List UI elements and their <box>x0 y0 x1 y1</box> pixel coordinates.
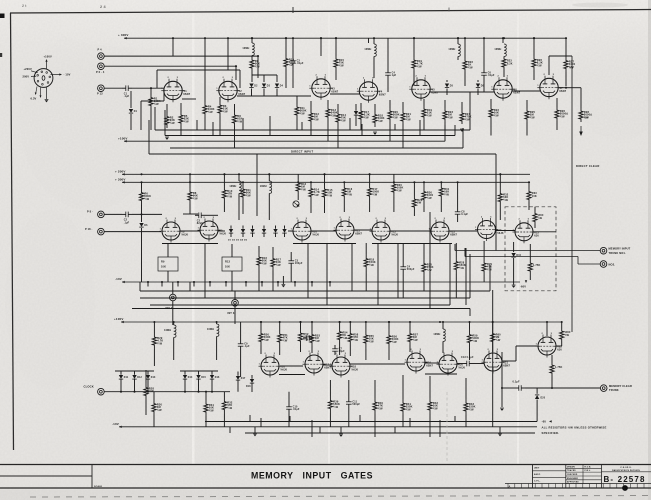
wire <box>263 233 265 237</box>
junction <box>285 37 287 39</box>
wire <box>173 337 175 360</box>
wire <box>534 207 536 211</box>
wire <box>360 103 362 108</box>
wire <box>394 124 396 130</box>
junction <box>133 391 135 393</box>
junction <box>457 181 459 183</box>
wire <box>372 243 452 245</box>
inductor <box>164 325 176 337</box>
diode D11 <box>119 375 129 379</box>
resistor R22 <box>463 58 474 72</box>
resistor R18 <box>364 254 376 271</box>
wire <box>285 69 287 88</box>
wire <box>285 38 287 56</box>
wire <box>148 120 150 154</box>
wire <box>533 70 535 80</box>
junction <box>235 65 237 67</box>
wire <box>469 254 471 298</box>
wire <box>324 201 326 213</box>
net +200V <box>115 170 530 176</box>
diode D12 <box>132 375 142 379</box>
wire <box>499 208 501 220</box>
wire <box>444 125 446 141</box>
border frame left <box>11 13 14 450</box>
wire <box>556 98 558 107</box>
wire <box>551 375 553 388</box>
wire <box>483 275 485 282</box>
wire <box>242 233 244 237</box>
wire <box>268 193 270 220</box>
terminal P13 <box>97 85 104 96</box>
wire <box>440 182 442 185</box>
wire <box>216 322 218 324</box>
junction <box>501 387 503 389</box>
junction <box>388 321 390 323</box>
wire <box>365 243 367 254</box>
junction <box>260 321 262 323</box>
resistor R56 <box>387 329 399 350</box>
wire <box>230 233 232 237</box>
wire <box>329 282 331 287</box>
wire <box>156 70 158 88</box>
wire <box>548 56 550 75</box>
wire <box>292 38 294 57</box>
tube socket pin diagram <box>23 55 71 103</box>
wire <box>561 322 563 329</box>
wire <box>180 126 182 136</box>
wire <box>297 195 299 200</box>
wire <box>536 400 538 422</box>
wire <box>229 427 231 433</box>
resistor R14 <box>336 111 347 125</box>
resistor R2 <box>165 113 175 128</box>
wire <box>354 229 372 231</box>
wire <box>461 102 463 110</box>
diode D4 <box>275 84 284 88</box>
capacitor <box>515 385 525 391</box>
wire <box>180 370 218 372</box>
wire <box>444 122 446 130</box>
resistor R29 <box>482 259 493 275</box>
junction <box>227 37 229 39</box>
junction <box>349 321 351 323</box>
junction <box>369 173 371 175</box>
wire <box>483 79 485 92</box>
drawing number B-22578 <box>604 475 646 484</box>
resistor R32 <box>222 397 233 414</box>
capacitor C7 <box>332 345 345 355</box>
wire <box>349 118 351 130</box>
junction <box>223 173 225 175</box>
wire <box>389 122 391 141</box>
wire <box>402 273 404 298</box>
wire <box>439 420 441 437</box>
wire <box>227 38 229 70</box>
wire <box>394 427 396 433</box>
wire <box>429 212 431 309</box>
resistor <box>527 189 531 202</box>
resistor R17 <box>359 108 370 122</box>
title block grid <box>533 465 651 489</box>
wire <box>104 87 122 89</box>
capacitor C2 <box>195 213 205 226</box>
wire <box>369 174 371 185</box>
wire <box>177 282 179 287</box>
wire <box>280 365 303 367</box>
wire <box>449 244 451 305</box>
resistor R27 <box>564 57 576 72</box>
resistor R52 <box>298 329 310 345</box>
capacitor <box>303 335 313 341</box>
wire <box>429 376 431 398</box>
wire <box>223 392 225 397</box>
wire <box>245 432 535 434</box>
boxed label R9 <box>158 257 178 271</box>
wire <box>409 345 411 352</box>
resistor R39 <box>328 396 340 413</box>
wire <box>402 102 404 110</box>
transistor Q1 <box>293 201 300 207</box>
resistor R57 <box>408 330 419 345</box>
junction <box>413 37 415 39</box>
wire <box>462 128 464 148</box>
wire <box>279 345 281 355</box>
terminal MEMORY CLEAR TRUNK <box>600 384 632 392</box>
wire <box>234 306 236 324</box>
wire <box>145 370 147 383</box>
net MEMORY INPUT TRUNK NO1 <box>455 250 600 252</box>
wire <box>294 282 296 287</box>
resistor R21 <box>401 110 412 124</box>
wire <box>525 387 600 389</box>
vacuum tube V8 <box>160 218 189 243</box>
label <box>584 116 589 120</box>
wire <box>454 125 456 136</box>
resistor R51 <box>278 331 289 345</box>
junction <box>292 37 294 39</box>
wire <box>153 415 155 427</box>
wire <box>310 200 312 213</box>
resistor <box>533 211 537 224</box>
wire <box>546 322 548 336</box>
wire <box>242 182 244 186</box>
junction <box>189 173 191 175</box>
registration mark left edge <box>0 14 5 19</box>
note -60 <box>542 419 552 423</box>
wire <box>413 71 415 86</box>
ground <box>373 132 377 135</box>
wire <box>132 87 164 89</box>
junction <box>457 37 459 39</box>
wire <box>311 420 313 437</box>
wire <box>446 80 448 82</box>
wire <box>457 218 459 222</box>
wire <box>104 213 122 215</box>
wire <box>212 122 214 136</box>
border frame top <box>10 10 651 14</box>
wire <box>469 309 471 317</box>
wire <box>337 104 339 111</box>
wire <box>465 378 467 399</box>
resistor R59 <box>467 329 479 348</box>
junction <box>223 173 225 175</box>
diode D6 <box>139 223 148 227</box>
wire <box>301 122 303 130</box>
wire <box>477 89 479 96</box>
wire <box>503 68 505 77</box>
wire <box>528 182 530 189</box>
wire <box>263 75 265 81</box>
wire <box>260 345 262 354</box>
scale label <box>94 485 103 488</box>
net DIRECT CLEAR <box>572 56 600 332</box>
vacuum tube V14 <box>475 216 504 241</box>
resistor R16 <box>257 252 268 270</box>
wire <box>492 352 494 422</box>
wire <box>365 322 367 329</box>
wire <box>189 174 191 188</box>
wire <box>296 96 298 104</box>
wire <box>149 153 496 155</box>
junction <box>311 321 313 323</box>
wire <box>251 89 253 97</box>
wire <box>490 99 492 106</box>
capacitor C8 <box>455 208 469 218</box>
junction <box>439 321 441 323</box>
wire <box>469 322 471 329</box>
wire <box>258 270 260 282</box>
wire <box>549 55 572 57</box>
wire <box>198 379 200 392</box>
wire <box>423 243 425 259</box>
wire <box>311 282 313 287</box>
wire <box>238 193 240 220</box>
capacitor C6 <box>481 69 495 79</box>
net +100V bottom <box>114 317 562 323</box>
junction <box>329 281 331 283</box>
label <box>513 380 521 383</box>
capacitor C4 <box>385 69 396 79</box>
resistor R28 <box>412 196 423 210</box>
label DIRECT INPUT <box>291 150 313 154</box>
wire <box>337 125 339 148</box>
wire <box>340 427 342 434</box>
junction <box>153 321 155 323</box>
wire <box>350 363 405 365</box>
junction <box>492 321 494 323</box>
resistor R29 <box>152 333 163 349</box>
wire <box>140 297 470 299</box>
wire <box>263 226 265 229</box>
wire <box>141 205 143 214</box>
wire <box>204 117 206 130</box>
wire <box>374 380 376 398</box>
wire <box>516 345 537 347</box>
wire <box>492 290 494 352</box>
wire <box>464 72 466 86</box>
wire <box>290 252 292 257</box>
junction <box>335 37 337 39</box>
wire <box>275 226 277 229</box>
junction <box>285 37 287 39</box>
resistor R17 <box>271 254 282 271</box>
junction <box>279 321 281 323</box>
junction <box>528 181 530 183</box>
junction <box>251 37 253 39</box>
wire <box>351 243 353 291</box>
wire <box>512 90 540 92</box>
junction <box>172 37 174 39</box>
wire <box>223 414 225 427</box>
wire <box>290 267 292 282</box>
wire <box>533 231 556 233</box>
wire <box>469 348 471 360</box>
vacuum tube V17 <box>303 351 332 376</box>
net MEMORY INPUT TRUNK NO2 <box>465 257 600 265</box>
junction <box>260 321 262 323</box>
wire <box>349 322 351 330</box>
junction <box>413 37 415 39</box>
resistor R10 <box>284 56 296 69</box>
resistor R30 <box>422 185 434 206</box>
resistor R8 <box>188 188 198 204</box>
wire <box>115 370 154 372</box>
net +300V mid <box>115 178 530 184</box>
label <box>533 264 540 267</box>
wire <box>545 37 566 39</box>
junction <box>251 37 253 39</box>
wire <box>231 244 233 257</box>
junction <box>245 281 247 283</box>
wire <box>377 244 379 305</box>
junction <box>120 391 122 393</box>
junction <box>413 181 415 183</box>
label <box>565 331 571 337</box>
resistor R19 <box>422 106 433 120</box>
wire <box>311 230 336 232</box>
wire <box>150 88 152 95</box>
junction <box>483 37 485 39</box>
junction <box>492 321 494 323</box>
wire <box>402 124 404 148</box>
wire <box>457 56 459 60</box>
terminal CLOCK <box>84 384 105 395</box>
vacuum tube V5 <box>409 76 438 101</box>
wire <box>442 341 444 353</box>
wire <box>153 392 155 400</box>
wire <box>489 265 491 291</box>
vacuum tube V2 <box>216 77 245 102</box>
vacuum tube V19 <box>405 349 434 374</box>
wire <box>477 80 479 82</box>
wire <box>373 56 375 78</box>
junction <box>140 173 142 175</box>
diode <box>262 229 266 233</box>
resistor R54 <box>338 329 349 342</box>
junction <box>533 37 535 39</box>
junction <box>311 281 313 283</box>
wire <box>502 38 504 43</box>
wire <box>430 91 494 93</box>
wire <box>330 93 360 95</box>
diode <box>282 229 286 233</box>
wire <box>566 87 581 89</box>
wire <box>288 392 290 403</box>
wire <box>163 88 165 101</box>
junction <box>343 181 345 183</box>
inductor <box>242 43 254 55</box>
wire <box>120 371 122 375</box>
label <box>532 192 537 198</box>
wire <box>257 56 259 78</box>
wire <box>154 107 156 130</box>
terminal MEMORY INPUT TRUNK NO1 <box>600 247 630 255</box>
wire <box>104 391 230 393</box>
vacuum tube V6 <box>491 76 520 101</box>
vacuum tube V20 <box>437 351 466 376</box>
wire <box>279 374 305 376</box>
wire <box>234 291 236 300</box>
vacuum tube V18 <box>330 353 359 378</box>
junction <box>373 37 375 39</box>
wire <box>288 230 293 232</box>
margin tick <box>292 7 294 13</box>
junction <box>335 37 337 39</box>
junction <box>257 55 259 57</box>
wire <box>329 413 331 427</box>
wire <box>172 301 174 325</box>
wire <box>483 241 485 259</box>
wire <box>130 114 132 130</box>
wire <box>272 271 274 291</box>
wire <box>268 174 270 181</box>
wire <box>242 118 244 130</box>
wire <box>237 95 311 97</box>
resistor R5 <box>179 112 189 126</box>
ground <box>460 129 464 132</box>
wire <box>252 226 254 229</box>
resistor R15 <box>322 185 333 201</box>
wire <box>269 116 271 136</box>
label <box>555 366 562 369</box>
resistor R25 <box>525 108 536 122</box>
wire <box>240 350 242 377</box>
wire <box>132 308 470 310</box>
junction <box>565 87 567 89</box>
wire <box>368 38 370 43</box>
title strip top line <box>0 464 651 466</box>
junction <box>320 37 322 39</box>
wire <box>279 322 281 331</box>
wire <box>311 346 313 353</box>
diode D16 <box>210 375 220 379</box>
wire <box>526 100 528 108</box>
diode D2 <box>249 84 258 88</box>
wire <box>492 322 494 329</box>
junction <box>457 37 459 39</box>
resistor R50 <box>259 330 271 345</box>
bottom edge dashes <box>30 496 651 498</box>
wire <box>556 345 562 347</box>
wire <box>409 418 411 427</box>
wire <box>551 355 553 363</box>
net -10V <box>115 277 520 283</box>
wire <box>231 271 233 291</box>
wire <box>180 103 182 112</box>
junction <box>193 281 195 283</box>
wire <box>360 122 362 130</box>
ground <box>165 137 169 140</box>
